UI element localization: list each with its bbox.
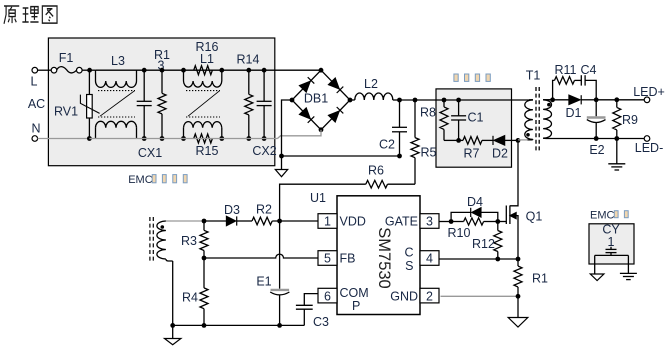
earth ground CY right: [620, 273, 637, 279]
svg-text:VDD: VDD: [340, 215, 366, 229]
junction RV1 bottom on N rail: [87, 136, 92, 141]
svg-text:6: 6: [324, 289, 331, 303]
svg-text:EMC: EMC: [590, 209, 615, 221]
svg-text:C1: C1: [468, 111, 484, 125]
capacitor CX2: [252, 70, 276, 158]
choke L1 top winding: [184, 52, 222, 87]
svg-text:5: 5: [324, 252, 331, 266]
junction bridge AC bottom: [319, 127, 324, 132]
junction R9 top: [614, 97, 619, 102]
wire to LED- terminal: [596, 138, 644, 140]
svg-text:E1: E1: [256, 275, 271, 289]
svg-text:R12: R12: [472, 237, 495, 251]
wire L2 to DC rail: [393, 99, 400, 101]
pin 1 VDD: [318, 214, 366, 229]
junction R5 top: [413, 98, 418, 103]
junction CX2 bottom: [262, 136, 267, 141]
svg-text:R8: R8: [420, 106, 436, 120]
junction bridge plus: [348, 98, 353, 103]
svg-text:R1: R1: [532, 272, 548, 286]
svg-text:LED+: LED+: [633, 85, 665, 99]
wire R8 bottom to C1 bottom: [444, 139, 459, 141]
varistor RV1: [54, 70, 100, 138]
wire pin2 GND line (gray): [441, 295, 519, 297]
resistor R4: [182, 258, 208, 325]
svg-text:3: 3: [426, 215, 433, 229]
bridge diode top-right: [329, 78, 344, 93]
aux winding core: [150, 217, 153, 263]
junction bridge minus: [290, 98, 295, 103]
resistor R14: [237, 53, 260, 139]
resistor R10: [448, 218, 498, 240]
svg-text:4: 4: [426, 252, 433, 266]
wire DC rail to transformer: [400, 99, 534, 101]
svg-text:D3: D3: [224, 203, 240, 217]
terminal LED+: [633, 85, 665, 103]
wire bridge plus to L2: [350, 99, 355, 101]
pin 3 GATE: [385, 214, 439, 229]
node after F1: [87, 68, 92, 73]
resistor R16 on top rail: [194, 40, 219, 75]
choke L3 bottom winding: [96, 121, 137, 138]
junction L1 bottom-right: [219, 136, 224, 141]
junction R8 top: [442, 98, 447, 103]
fuse F1: [51, 51, 82, 73]
bridge diode top-left: [300, 77, 315, 92]
junction R4 bottom: [202, 323, 207, 328]
wire L terminal to fuse F1: [38, 69, 52, 71]
svg-text:D4: D4: [467, 195, 483, 209]
choke L3 top winding: [96, 54, 137, 87]
pin 6 COMP: [318, 286, 369, 313]
title text 原理图 (schematic) drawn as strokes: [4, 6, 57, 24]
junction gate node right: [495, 219, 500, 224]
resistor R9: [613, 100, 638, 139]
svg-text:T1: T1: [526, 69, 541, 83]
junction R9 bottom: [614, 136, 619, 141]
svg-text:N: N: [31, 122, 40, 136]
junction ground bus right: [397, 154, 402, 159]
inductor L2: [355, 77, 393, 100]
junction aux bottom node: [170, 323, 175, 328]
polarity dot secondary: [547, 103, 551, 107]
junction CS node Q1: [516, 257, 521, 262]
wire N terminal into filter (gray): [38, 138, 90, 140]
ground symbol primary: [275, 156, 287, 177]
capacitor CY1: [595, 223, 629, 275]
wire ground bus horizontal: [282, 155, 400, 157]
wire bridge minus to ground bus: [282, 100, 293, 156]
terminal LED-: [635, 136, 663, 155]
junction VDD node: [277, 219, 282, 224]
choke L1 bottom winding: [184, 122, 222, 139]
svg-text:1: 1: [324, 215, 331, 229]
label AC: [28, 97, 45, 111]
capacitor C2: [379, 100, 407, 156]
capacitor C3: [296, 294, 329, 329]
resistor R12: [472, 222, 502, 260]
wire top rail L through filter: [95, 69, 321, 71]
svg-text:R6: R6: [368, 164, 384, 178]
junction CX1 top: [142, 68, 147, 73]
svg-text:R5: R5: [421, 146, 437, 160]
junction ground bus left: [279, 154, 284, 159]
junction FB node: [202, 256, 207, 261]
wire secondary top to output node: [543, 99, 553, 101]
svg-text:R9: R9: [622, 113, 638, 127]
svg-text:FB: FB: [340, 252, 356, 266]
junction D1 cathode node: [594, 97, 599, 102]
wire bottom rail N through filter (gray): [89, 138, 277, 140]
polarity dot aux: [161, 225, 165, 229]
junction L1 top-right: [219, 68, 224, 73]
EMC input filter block background box: [48, 38, 274, 166]
svg-text:2: 2: [426, 289, 433, 303]
svg-text:CX2: CX2: [252, 144, 276, 158]
svg-text:GND: GND: [390, 289, 418, 303]
svg-text:SM7530: SM7530: [375, 227, 393, 288]
junction switch node: [516, 138, 521, 143]
junction R14 bottom: [246, 136, 251, 141]
svg-text:COM: COM: [340, 286, 369, 300]
resistor R7: [459, 137, 482, 161]
svg-text:R7: R7: [464, 147, 480, 161]
svg-text:R4: R4: [182, 291, 198, 305]
junction CS node R12: [495, 257, 500, 262]
junction CX2 top: [262, 68, 267, 73]
capacitor C1: [451, 100, 483, 140]
diode D2: [482, 136, 508, 161]
svg-text:R15: R15: [196, 144, 219, 158]
wire F1 to node: [82, 69, 95, 71]
wire R6 to VDD node: [280, 184, 366, 221]
svg-text:DB1: DB1: [304, 92, 328, 106]
wire D2 to switch node: [505, 139, 518, 141]
wire pin4 CS line: [439, 258, 518, 260]
wire primary bottom to switch node (gray): [518, 139, 528, 141]
svg-text:C3: C3: [313, 315, 329, 329]
wire gate node to mosfet gate: [498, 221, 507, 223]
choke L3 core: [98, 91, 135, 117]
resistor R15 on bottom rail: [194, 134, 219, 158]
svg-text:D2: D2: [492, 147, 508, 161]
resistor R11: [553, 63, 577, 100]
pin 2 GND: [390, 288, 439, 303]
wire pin3 to gate node: [439, 221, 451, 223]
resistor R13: [154, 48, 170, 139]
junction secondary top: [550, 97, 555, 102]
svg-text:U1: U1: [310, 191, 326, 205]
wire secondary bottom rail: [546, 138, 596, 140]
junction R13 bottom: [160, 136, 165, 141]
label absorption-loop tofu above snubber box: [454, 74, 490, 81]
svg-text:R3: R3: [181, 234, 197, 248]
junction C1 top: [456, 98, 461, 103]
label EMC filter under box: [128, 174, 187, 186]
capacitor E2 electrolytic: [587, 100, 606, 157]
junction E2 bottom: [594, 136, 599, 141]
pin 5 FB: [318, 251, 355, 266]
pin 4 CS: [404, 246, 439, 274]
transistor Q1 nmos: [506, 140, 542, 259]
wire R2 to VDD pin: [272, 220, 318, 222]
svg-text:EMC: EMC: [128, 174, 153, 186]
wire to LED+ terminal: [596, 99, 644, 101]
svg-text:R2: R2: [256, 203, 272, 217]
svg-text:L1: L1: [200, 52, 214, 66]
svg-text:RV1: RV1: [54, 105, 78, 119]
junction C1 bottom: [456, 138, 461, 143]
bridge diode bottom-right: [329, 107, 344, 122]
resistor R3: [181, 221, 208, 258]
junction bridge AC top: [319, 68, 324, 73]
bridge rectifier DB1 outline: [292, 70, 350, 130]
bridge diode bottom-left: [300, 108, 315, 123]
capacitor CX1: [137, 70, 163, 160]
junction DC rail at C2: [397, 98, 402, 103]
junction R1 bottom: [516, 294, 521, 299]
svg-text:S: S: [405, 259, 413, 273]
polarity dot primary: [526, 133, 530, 137]
resistor R1: [514, 259, 548, 296]
svg-text:P: P: [352, 299, 360, 313]
transformer T1 primary winding: [525, 69, 541, 140]
svg-text:GATE: GATE: [385, 215, 418, 229]
diode D4: [451, 195, 498, 222]
terminal L with label: [31, 67, 38, 88]
wire R5 to R6: [388, 183, 416, 185]
choke L1 core: [186, 91, 220, 117]
capacitor C4: [575, 63, 597, 100]
svg-text:L2: L2: [364, 77, 378, 91]
svg-text:C2: C2: [379, 138, 395, 152]
junction L1 top-left: [181, 68, 186, 73]
transformer T1 secondary winding: [543, 100, 553, 139]
svg-text:Q1: Q1: [526, 210, 543, 224]
op-amp U1 SM7530 body: [310, 191, 420, 315]
RCD snubber block background box: [436, 89, 512, 167]
resistor R5: [411, 100, 437, 184]
ground symbol CY left: [590, 274, 604, 281]
wire N rail to bridge bottom (gray): [278, 130, 322, 139]
aux winding of T1: [157, 221, 173, 261]
svg-text:LED-: LED-: [635, 141, 663, 155]
transformer T1 core: [536, 87, 539, 151]
ground symbol power: [508, 296, 528, 327]
CY capacitor block background box: [589, 224, 634, 264]
resistor R8: [420, 100, 448, 140]
svg-text:R10: R10: [448, 226, 471, 240]
svg-text:R11: R11: [554, 63, 576, 77]
wire aux top to R3 node (gray): [171, 220, 205, 222]
terminal N with label: [31, 122, 40, 142]
wire VDD node down to E1: [279, 221, 281, 289]
junction E1 bottom: [277, 323, 282, 328]
wire bottom common: [173, 324, 305, 326]
svg-text:E2: E2: [589, 143, 604, 157]
svg-text:C: C: [404, 246, 413, 260]
junction CX1 bottom: [142, 136, 147, 141]
wire FB line with hop: [204, 254, 318, 258]
svg-text:C4: C4: [581, 63, 597, 77]
junction R13 top: [160, 68, 165, 73]
junction aux R3 node: [202, 219, 207, 224]
resistor R6: [366, 164, 388, 189]
svg-text:CX1: CX1: [138, 146, 162, 160]
junction L1 bottom-left: [181, 136, 186, 141]
wire aux bottom down: [172, 261, 174, 325]
svg-text:AC: AC: [28, 97, 45, 111]
label EMC cap block: [590, 209, 628, 221]
svg-text:L: L: [31, 75, 38, 89]
resistor R2: [252, 203, 272, 225]
diode D3: [204, 203, 252, 226]
svg-text:D1: D1: [566, 106, 582, 120]
diode D1: [553, 95, 597, 120]
svg-text:F1: F1: [59, 51, 74, 65]
junction R14 top: [246, 68, 251, 73]
junction gate node left: [449, 219, 454, 224]
svg-text:R14: R14: [237, 53, 260, 67]
earth ground secondary: [608, 139, 625, 171]
ground symbol aux: [165, 325, 181, 344]
capacitor E1 electrolytic: [256, 275, 289, 326]
svg-text:L3: L3: [111, 54, 125, 68]
